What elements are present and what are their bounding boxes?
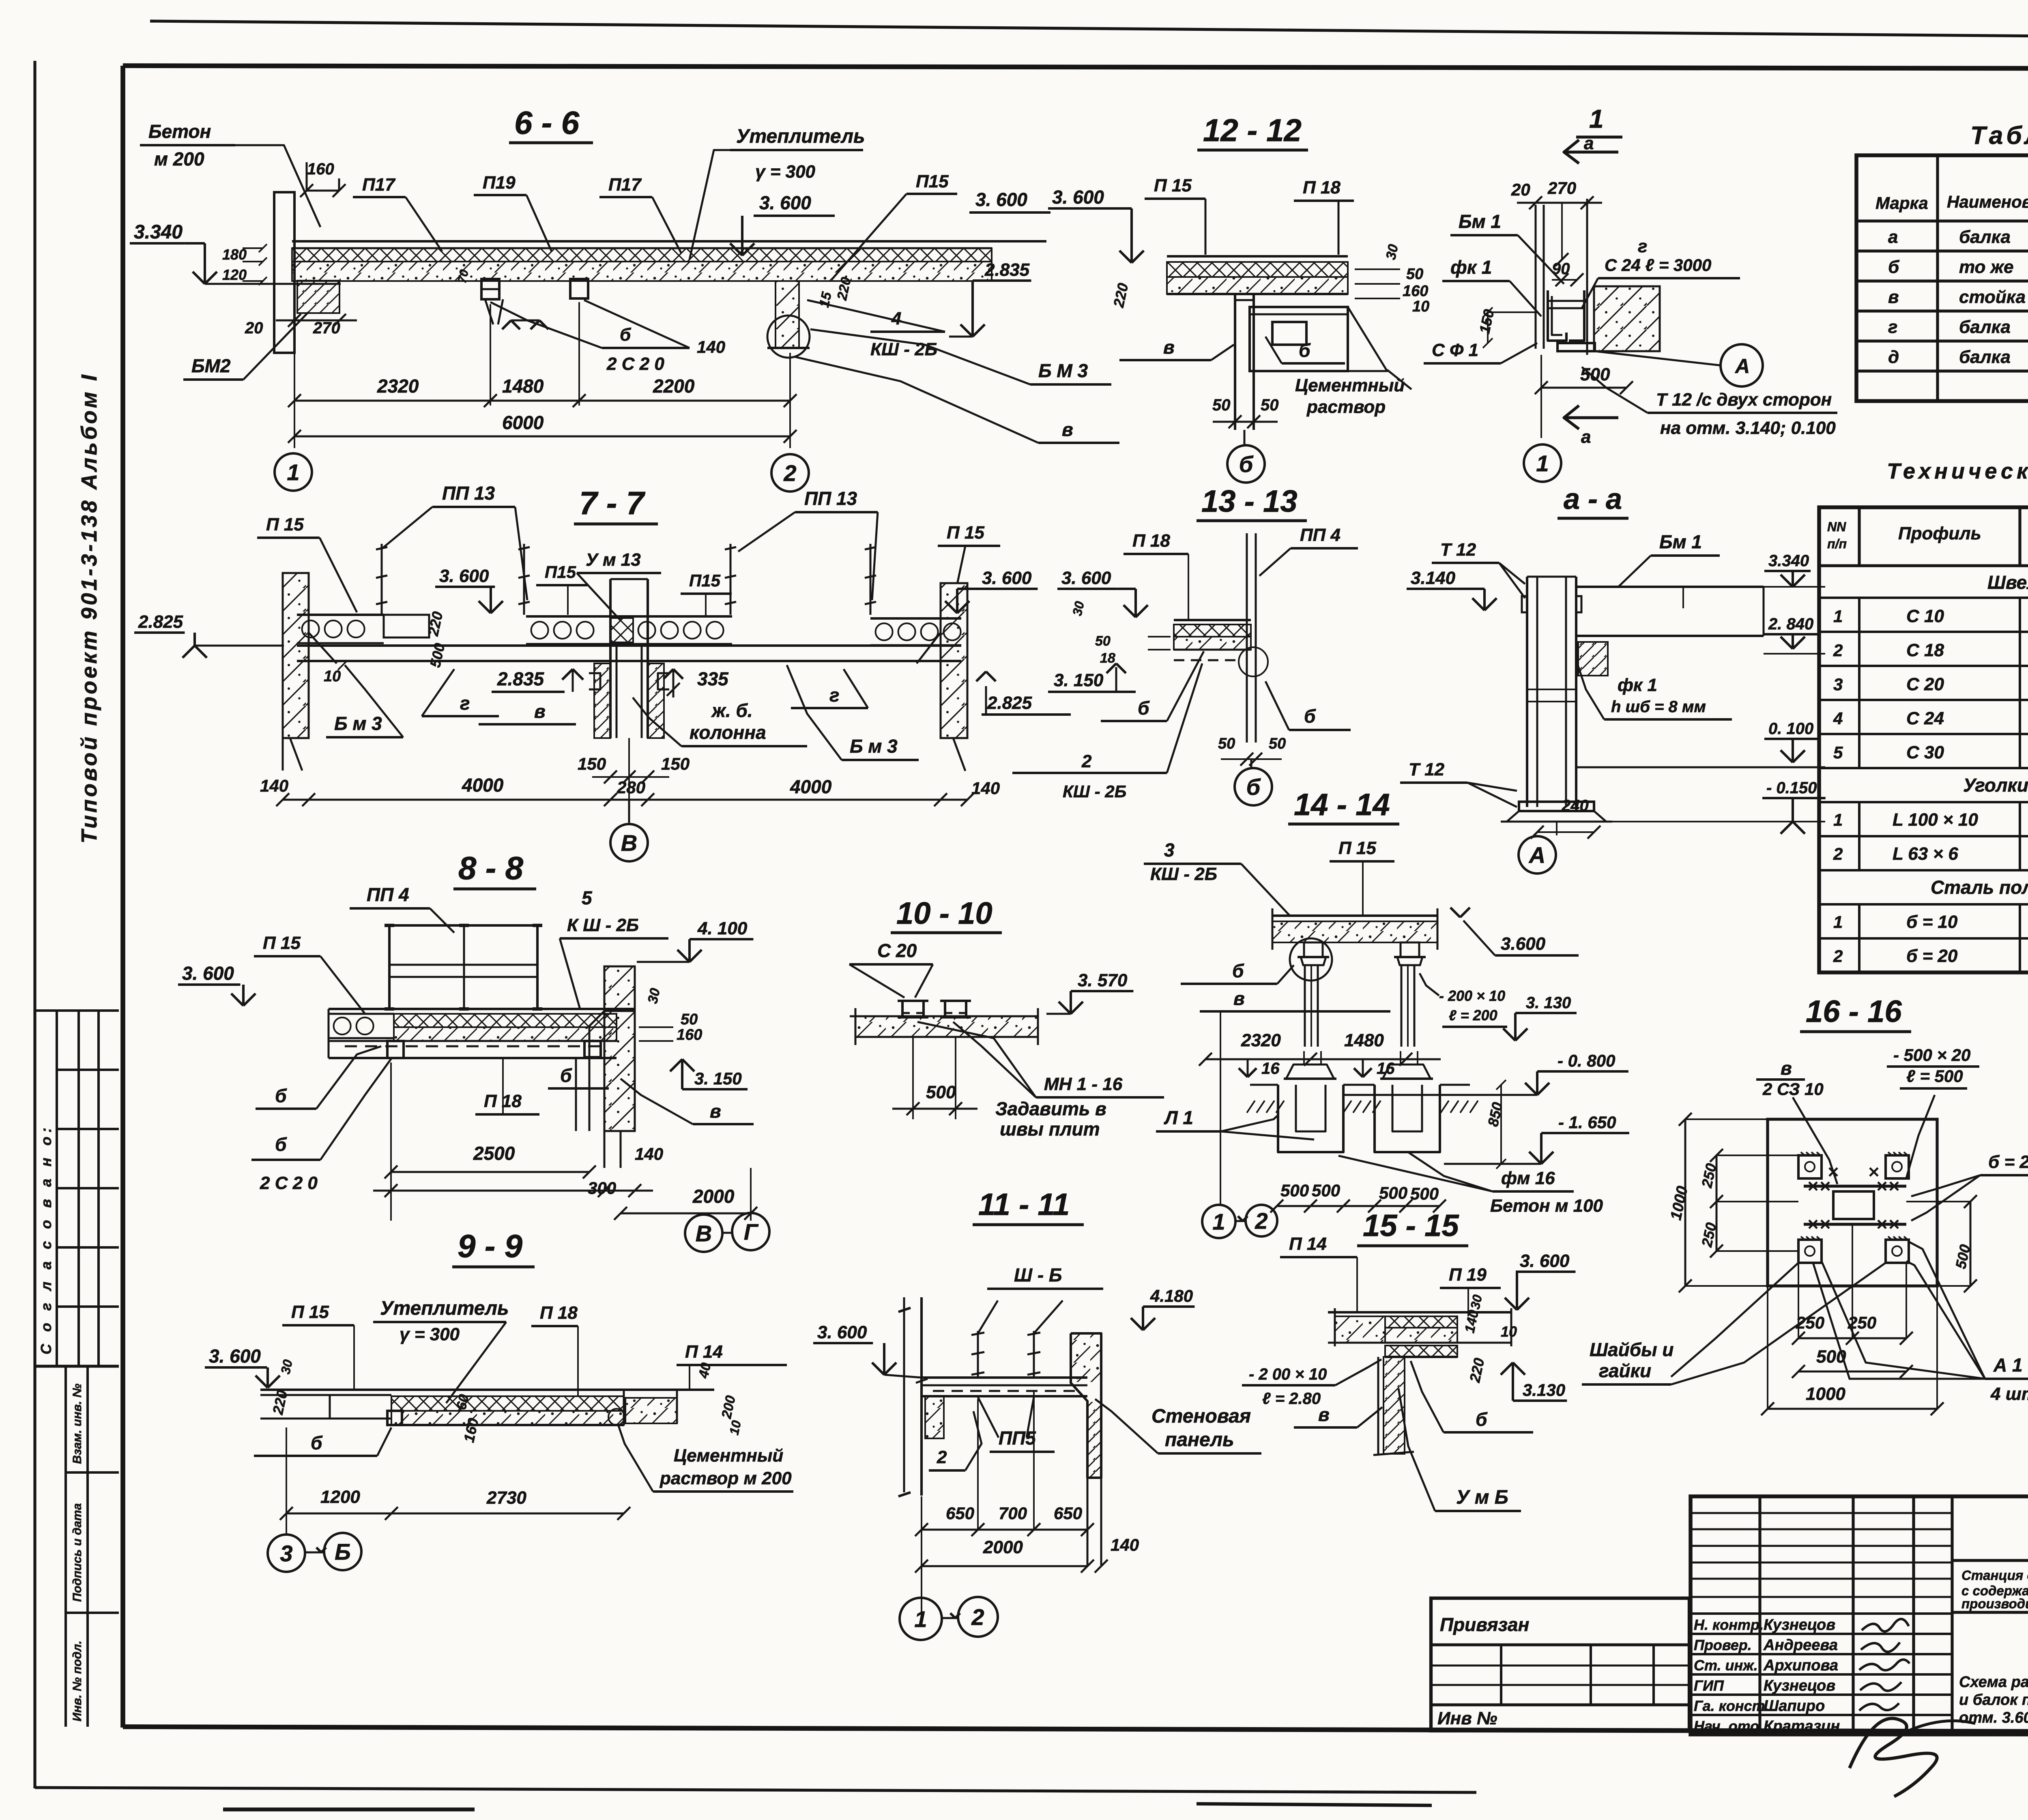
svg-text:150: 150 bbox=[578, 754, 606, 773]
6-6 slab insulation band bbox=[292, 248, 992, 262]
svg-text:С о г л а с о в а н о:: С о г л а с о в а н о: bbox=[38, 1124, 54, 1354]
svg-text:1: 1 bbox=[1833, 810, 1843, 829]
svg-text:3. 130: 3. 130 bbox=[1526, 994, 1571, 1012]
svg-text:Архипова: Архипова bbox=[1763, 1657, 1838, 1674]
svg-text:2500: 2500 bbox=[473, 1143, 515, 1164]
svg-text:2. 840: 2. 840 bbox=[1768, 615, 1813, 633]
svg-text:30: 30 bbox=[645, 987, 663, 1005]
svg-text:Утеплитель: Утеплитель bbox=[380, 1298, 509, 1319]
svg-text:1: 1 bbox=[1833, 912, 1843, 931]
svg-text:П 18: П 18 bbox=[1303, 178, 1341, 197]
svg-text:10: 10 bbox=[1412, 298, 1429, 315]
svg-text:в: в bbox=[1163, 337, 1175, 358]
svg-text:40: 40 bbox=[696, 1361, 714, 1380]
svg-text:и балок перекрытия на: и балок перекрытия на bbox=[1959, 1691, 2028, 1708]
svg-text:8 - 8: 8 - 8 bbox=[458, 850, 524, 886]
a-a base bbox=[1519, 802, 1594, 811]
7-7 left wall bbox=[283, 573, 309, 738]
9-9 slab left thin bbox=[260, 1389, 714, 1391]
svg-text:раствор: раствор bbox=[1306, 397, 1386, 417]
svg-text:240: 240 bbox=[1561, 797, 1589, 815]
svg-text:Наименован.: Наименован. bbox=[1947, 192, 2028, 211]
svg-text:ℓ = 500: ℓ = 500 bbox=[1906, 1067, 1963, 1086]
svg-text:50: 50 bbox=[1406, 266, 1423, 283]
svg-text:50: 50 bbox=[1212, 396, 1231, 414]
svg-text:на отм. 3.140; 0.100: на отм. 3.140; 0.100 bbox=[1660, 418, 1836, 438]
svg-text:4.180: 4.180 bbox=[1150, 1286, 1193, 1305]
svg-text:Т 12: Т 12 bbox=[1409, 760, 1445, 779]
svg-text:П 15: П 15 bbox=[1338, 838, 1376, 858]
svg-text:3. 600: 3. 600 bbox=[759, 192, 811, 213]
svg-text:Сталь полосовая 103-76: Сталь полосовая 103-76 bbox=[1931, 877, 2028, 898]
svg-text:4000: 4000 bbox=[462, 775, 504, 796]
svg-text:3.340: 3.340 bbox=[1768, 552, 1809, 570]
svg-text:А 1: А 1 bbox=[1993, 1354, 2023, 1376]
svg-text:270: 270 bbox=[313, 319, 340, 337]
svg-text:3.140: 3.140 bbox=[1411, 568, 1456, 588]
svg-text:У м 13: У м 13 bbox=[586, 550, 641, 570]
svg-text:15 - 15: 15 - 15 bbox=[1363, 1208, 1459, 1243]
svg-text:С 30: С 30 bbox=[1906, 743, 1944, 762]
svg-text:50: 50 bbox=[1269, 735, 1286, 752]
svg-text:Подпись и дата: Подпись и дата bbox=[71, 1503, 84, 1602]
svg-text:700: 700 bbox=[999, 1504, 1027, 1523]
svg-text:3: 3 bbox=[280, 1541, 292, 1566]
svg-text:Л 1: Л 1 bbox=[1164, 1107, 1193, 1128]
svg-text:L 63 × 6: L 63 × 6 bbox=[1893, 844, 1958, 864]
13-13 bubble bbox=[1250, 759, 1252, 767]
title block signatures squiggles bbox=[1862, 1619, 1909, 1631]
drawing frame bbox=[123, 66, 2028, 69]
svg-text:2.835: 2.835 bbox=[497, 668, 545, 689]
svg-text:в: в bbox=[1888, 287, 1899, 307]
svg-text:Инв №: Инв № bbox=[1437, 1708, 1497, 1728]
svg-text:650: 650 bbox=[1054, 1504, 1082, 1523]
svg-text:3. 600: 3. 600 bbox=[439, 566, 489, 586]
9-9 bubbles bbox=[268, 1535, 305, 1572]
svg-text:70: 70 bbox=[455, 268, 471, 285]
svg-text:П 14: П 14 bbox=[685, 1342, 723, 1362]
svg-text:335: 335 bbox=[697, 668, 729, 689]
svg-text:h шб = 8 мм: h шб = 8 мм bbox=[1611, 698, 1706, 716]
svg-text:Т 12 /с двух сторон: Т 12 /с двух сторон bbox=[1656, 390, 1832, 410]
svg-text:20: 20 bbox=[1511, 180, 1530, 199]
svg-text:2 С 2 0: 2 С 2 0 bbox=[260, 1173, 318, 1193]
svg-text:3. 600: 3. 600 bbox=[975, 189, 1027, 210]
svg-text:160: 160 bbox=[1403, 283, 1428, 300]
svg-text:9 - 9: 9 - 9 bbox=[458, 1228, 523, 1264]
svg-text:3. 600: 3. 600 bbox=[1052, 187, 1104, 208]
7-7 slab hollow-core right bbox=[870, 617, 961, 620]
svg-text:ПП 4: ПП 4 bbox=[1300, 525, 1341, 545]
svg-text:Стеновая: Стеновая bbox=[1151, 1406, 1251, 1427]
11-11 axis wall lines bbox=[903, 1297, 905, 1492]
svg-text:У м Б: У м Б bbox=[1456, 1487, 1508, 1508]
svg-text:П 15: П 15 bbox=[1154, 176, 1192, 195]
svg-text:раствор м 200: раствор м 200 bbox=[660, 1468, 792, 1488]
svg-text:ПП5: ПП5 bbox=[999, 1427, 1036, 1449]
svg-text:10: 10 bbox=[726, 1419, 744, 1436]
14-14 post caps at footing bbox=[1286, 1065, 1334, 1079]
svg-text:П15: П15 bbox=[545, 562, 576, 582]
title block signature columns bbox=[1758, 1496, 1761, 1734]
6-6 grid bubbles bbox=[275, 453, 312, 491]
svg-text:3. 150: 3. 150 bbox=[694, 1069, 742, 1088]
svg-text:б: б bbox=[1299, 340, 1311, 361]
14-14 bubbles bbox=[1202, 1205, 1235, 1238]
7-7 joint bars above slab bbox=[381, 544, 383, 615]
11-11 left block bbox=[925, 1396, 944, 1438]
svg-text:П 14: П 14 bbox=[1289, 1234, 1327, 1254]
svg-text:4 шт: 4 шт bbox=[1990, 1384, 2028, 1404]
svg-text:γ = 300: γ = 300 bbox=[755, 162, 816, 182]
svg-text:швы плит: швы плит bbox=[1000, 1118, 1100, 1140]
svg-text:3. 600: 3. 600 bbox=[209, 1346, 261, 1367]
svg-text:балка: балка bbox=[1959, 227, 2011, 247]
svg-text:МН 1 - 16: МН 1 - 16 bbox=[1044, 1074, 1123, 1094]
svg-text:б: б bbox=[1304, 706, 1316, 727]
svg-text:производительностью 40 тыс.: производительностью 40 тыс. м³/сутки. bbox=[1961, 1596, 2028, 1611]
svg-text:Утеплитель: Утеплитель bbox=[736, 126, 865, 147]
14-14 weld marks 16 bbox=[1239, 1068, 1248, 1077]
svg-text:- 0. 800: - 0. 800 bbox=[1558, 1051, 1615, 1070]
svg-text:2: 2 bbox=[1081, 751, 1092, 771]
svg-text:П 15: П 15 bbox=[263, 933, 301, 953]
svg-text:160: 160 bbox=[307, 160, 334, 178]
svg-text:30: 30 bbox=[278, 1358, 295, 1375]
svg-text:650: 650 bbox=[946, 1504, 974, 1523]
svg-text:3: 3 bbox=[1833, 675, 1843, 694]
svg-text:в: в bbox=[1233, 988, 1245, 1009]
svg-text:Б м 3: Б м 3 bbox=[334, 713, 382, 734]
svg-text:б: б bbox=[1232, 960, 1244, 981]
title block upper small rows bbox=[1691, 1512, 1952, 1514]
svg-text:фм 16: фм 16 bbox=[1501, 1168, 1555, 1188]
svg-text:150: 150 bbox=[661, 754, 690, 773]
svg-text:2: 2 bbox=[1833, 641, 1843, 660]
svg-text:12 - 12: 12 - 12 bbox=[1203, 112, 1302, 148]
svg-text:2: 2 bbox=[783, 460, 796, 486]
svg-text:П 18: П 18 bbox=[540, 1303, 578, 1323]
svg-text:Типовой проект 901-3-138: Типовой проект 901-3-138 Альбом I bbox=[77, 372, 101, 843]
svg-text:Кузнецов: Кузнецов bbox=[1764, 1677, 1835, 1694]
svg-text:140: 140 bbox=[971, 779, 1000, 798]
svg-text:60: 60 bbox=[453, 1393, 472, 1411]
svg-text:б: б bbox=[1246, 774, 1261, 800]
14-14 bolts and posts bbox=[1290, 938, 1332, 981]
svg-text:Станция обезжелезнивания во: Станция обезжелезнивания воды подземных … bbox=[1961, 1568, 2028, 1583]
svg-text:3. 600: 3. 600 bbox=[982, 568, 1032, 588]
table: Таблица сечений grid bbox=[1856, 155, 2028, 401]
svg-text:2: 2 bbox=[937, 1447, 947, 1467]
svg-text:270: 270 bbox=[1547, 178, 1576, 197]
svg-text:С 20: С 20 bbox=[1906, 674, 1944, 694]
paper top edge line bbox=[150, 21, 2028, 39]
svg-text:2 СЗ 10: 2 СЗ 10 bbox=[1762, 1080, 1824, 1099]
svg-text:Ст. инж.: Ст. инж. bbox=[1694, 1657, 1758, 1674]
svg-text:П17: П17 bbox=[608, 175, 642, 195]
12-12 slab bbox=[1167, 255, 1348, 258]
svg-text:2000: 2000 bbox=[692, 1186, 735, 1207]
svg-text:б: б bbox=[311, 1432, 323, 1453]
svg-text:в: в bbox=[1062, 419, 1073, 440]
svg-text:500: 500 bbox=[926, 1082, 956, 1102]
7-7 slab hollow-core left bbox=[297, 614, 384, 616]
svg-text:П 15: П 15 bbox=[947, 523, 984, 543]
svg-text:Инв. № подл.: Инв. № подл. bbox=[71, 1641, 84, 1721]
svg-text:Кратазин: Кратазин bbox=[1764, 1718, 1840, 1735]
12-12 cement box bbox=[1250, 307, 1348, 371]
svg-text:2.835: 2.835 bbox=[984, 260, 1030, 280]
svg-text:балка: балка bbox=[1959, 317, 2011, 337]
a-a bubble A bbox=[1556, 822, 1558, 835]
svg-text:16: 16 bbox=[1261, 1060, 1280, 1077]
15-15 wall below bbox=[1384, 1357, 1405, 1454]
node 1 section arrow a (top) bbox=[1564, 150, 1618, 153]
svg-text:3. 600: 3. 600 bbox=[1061, 568, 1111, 588]
svg-text:А: А bbox=[1734, 355, 1750, 378]
svg-text:2: 2 bbox=[1833, 946, 1843, 966]
svg-text:50: 50 bbox=[1261, 396, 1279, 414]
svg-text:ℓ = 2.80: ℓ = 2.80 bbox=[1262, 1390, 1321, 1408]
svg-text:отм. 3.600. Сечения 6-6 ÷15-: отм. 3.600. Сечения 6-6 ÷15-15. bbox=[1959, 1709, 2028, 1726]
svg-text:11 - 11: 11 - 11 bbox=[978, 1187, 1070, 1222]
6-6 mid hanger clips bbox=[481, 279, 499, 299]
node 1 wall verticals bbox=[1535, 205, 1537, 349]
svg-text:1: 1 bbox=[914, 1606, 927, 1632]
svg-text:1480: 1480 bbox=[502, 376, 544, 397]
13-13 slab bbox=[1174, 619, 1251, 621]
spec table grid bbox=[1819, 507, 2028, 972]
svg-text:140: 140 bbox=[635, 1144, 663, 1163]
svg-text:КШ - 2Б: КШ - 2Б bbox=[1063, 782, 1126, 801]
svg-text:С Ф 1: С Ф 1 bbox=[1432, 340, 1478, 360]
a-a channel column bbox=[1526, 577, 1528, 807]
svg-text:ПП 13: ПП 13 bbox=[804, 488, 857, 509]
svg-text:К Ш - 2Б: К Ш - 2Б bbox=[567, 915, 639, 935]
svg-text:1200: 1200 bbox=[320, 1487, 360, 1507]
svg-text:500: 500 bbox=[1312, 1181, 1340, 1200]
svg-text:Марка: Марка bbox=[1875, 193, 1928, 212]
svg-text:500: 500 bbox=[1410, 1184, 1439, 1203]
node 1 base plate bbox=[1558, 343, 1595, 351]
svg-text:- 1. 650: - 1. 650 bbox=[1558, 1113, 1616, 1132]
svg-text:3. 150: 3. 150 bbox=[1054, 670, 1104, 690]
svg-text:Бетон: Бетон bbox=[148, 121, 211, 142]
svg-text:г: г bbox=[829, 685, 840, 706]
svg-text:Кузнецов: Кузнецов bbox=[1764, 1616, 1835, 1633]
svg-text:2: 2 bbox=[1255, 1208, 1267, 1234]
svg-text:Шайбы и: Шайбы и bbox=[1590, 1339, 1674, 1360]
svg-text:1480: 1480 bbox=[1344, 1030, 1384, 1050]
svg-text:30: 30 bbox=[1070, 600, 1087, 617]
svg-text:50: 50 bbox=[681, 1011, 698, 1028]
svg-text:С 20: С 20 bbox=[877, 940, 917, 961]
svg-text:Б м 3: Б м 3 bbox=[850, 736, 898, 757]
svg-text:Нач. ото: Нач. ото bbox=[1694, 1718, 1759, 1734]
svg-text:3.600: 3.600 bbox=[1501, 934, 1546, 954]
svg-text:Г: Г bbox=[744, 1219, 759, 1245]
svg-text:а - а: а - а bbox=[1564, 483, 1622, 515]
svg-text:Андреева: Андреева bbox=[1763, 1637, 1838, 1654]
svg-text:фк 1: фк 1 bbox=[1450, 257, 1492, 278]
svg-text:б: б bbox=[620, 325, 632, 345]
svg-text:3.130: 3.130 bbox=[1523, 1380, 1565, 1399]
svg-text:а: а bbox=[1888, 227, 1898, 247]
16-16 corner bolt plates bbox=[1798, 1155, 1822, 1178]
bottom outer paper line bbox=[35, 1788, 1476, 1792]
13-13 post bbox=[1246, 533, 1248, 743]
svg-text:3. 600: 3. 600 bbox=[1520, 1251, 1570, 1271]
15-15 slab bbox=[1328, 1311, 1511, 1313]
11-11 slab bbox=[922, 1376, 1087, 1379]
svg-text:П 15: П 15 bbox=[291, 1302, 329, 1322]
svg-text:1: 1 bbox=[1589, 104, 1604, 133]
svg-text:Цементный: Цементный bbox=[674, 1446, 783, 1466]
svg-text:П15: П15 bbox=[689, 571, 721, 590]
8-8 tank box bbox=[389, 925, 537, 1009]
svg-text:П19: П19 bbox=[483, 173, 516, 193]
6-6 slab: top screed lines bbox=[292, 240, 1046, 243]
svg-text:м 200: м 200 bbox=[154, 148, 204, 170]
svg-text:ГИП: ГИП bbox=[1694, 1677, 1724, 1694]
svg-text:Га. конст.: Га. конст. bbox=[1694, 1698, 1769, 1714]
svg-text:- 200 × 10: - 200 × 10 bbox=[1439, 987, 1505, 1004]
svg-text:В: В bbox=[621, 830, 637, 856]
left margin: lower stamp strips bbox=[64, 1366, 67, 1727]
svg-text:П15: П15 bbox=[916, 172, 949, 191]
svg-text:б = 20: б = 20 bbox=[1988, 1152, 2028, 1172]
svg-text:балка: балка bbox=[1959, 347, 2011, 367]
14-14 slab bbox=[1272, 914, 1437, 917]
8-8 slab bbox=[329, 1008, 635, 1010]
svg-text:д: д bbox=[1888, 347, 1899, 367]
7-7 bubble В bbox=[628, 800, 630, 822]
svg-text:ж. б.: ж. б. bbox=[711, 700, 753, 721]
14-14 ground hatch bbox=[1247, 1101, 1255, 1113]
svg-text:Привязан: Привязан bbox=[1440, 1614, 1529, 1635]
11-11 bubbles bbox=[900, 1598, 942, 1640]
svg-text:С 24 ℓ = 3000: С 24 ℓ = 3000 bbox=[1605, 255, 1711, 275]
svg-text:Н. контр.: Н. контр. bbox=[1694, 1616, 1764, 1633]
svg-text:16: 16 bbox=[1377, 1060, 1395, 1077]
svg-text:в: в bbox=[710, 1101, 721, 1122]
svg-text:П 15: П 15 bbox=[266, 515, 304, 534]
svg-text:50: 50 bbox=[1095, 633, 1111, 649]
svg-text:С 24: С 24 bbox=[1906, 708, 1944, 728]
svg-text:20: 20 bbox=[245, 319, 263, 337]
8-8 bubbles bbox=[750, 1213, 752, 1217]
svg-text:3: 3 bbox=[1164, 839, 1175, 861]
7-7 slab hollow-core middle bbox=[526, 615, 732, 618]
svg-text:140: 140 bbox=[260, 776, 288, 795]
6-6 left wall bbox=[274, 192, 294, 353]
svg-text:Бетон м 100: Бетон м 100 bbox=[1490, 1196, 1603, 1216]
12-12 column strip bbox=[1234, 294, 1236, 430]
svg-text:2320: 2320 bbox=[377, 376, 419, 397]
svg-text:140: 140 bbox=[697, 337, 725, 356]
svg-text:- 500 × 20: - 500 × 20 bbox=[1893, 1045, 1970, 1065]
svg-text:3.340: 3.340 bbox=[134, 221, 183, 243]
7-7 center column bbox=[609, 579, 612, 738]
svg-text:Взам. инв. №: Взам. инв. № bbox=[71, 1384, 84, 1464]
svg-text:10 - 10: 10 - 10 bbox=[896, 896, 993, 931]
svg-text:2000: 2000 bbox=[983, 1537, 1023, 1557]
a-a corbel bbox=[1578, 642, 1608, 676]
svg-text:3. 600: 3. 600 bbox=[182, 963, 234, 984]
svg-text:Уголки Равнобокие 8509: Уголки Равнобокие 8509-72 bbox=[1963, 775, 2028, 796]
svg-text:в: в bbox=[1781, 1058, 1792, 1079]
svg-text:10: 10 bbox=[1501, 1323, 1517, 1340]
svg-text:Профиль: Профиль bbox=[1898, 524, 1981, 543]
svg-text:п/п: п/п bbox=[1827, 537, 1847, 551]
svg-text:6 - 6: 6 - 6 bbox=[514, 105, 580, 141]
9-9 right wall stub bbox=[625, 1398, 677, 1423]
svg-text:гайки: гайки bbox=[1599, 1360, 1651, 1381]
svg-text:П 19: П 19 bbox=[1449, 1265, 1487, 1285]
svg-text:Схема расположения плит: Схема расположения плит bbox=[1959, 1674, 2028, 1691]
svg-text:- 2 00 × 10: - 2 00 × 10 bbox=[1249, 1365, 1327, 1383]
svg-text:б: б bbox=[1888, 257, 1900, 277]
svg-text:30: 30 bbox=[1467, 1293, 1485, 1310]
svg-text:1: 1 bbox=[1212, 1209, 1225, 1234]
svg-text:1: 1 bbox=[1833, 607, 1843, 626]
svg-text:1: 1 bbox=[1536, 451, 1549, 476]
svg-text:Т 12: Т 12 bbox=[1440, 540, 1476, 560]
svg-text:б: б bbox=[1138, 698, 1150, 719]
svg-text:500: 500 bbox=[1580, 365, 1610, 384]
svg-text:Б: Б bbox=[335, 1539, 351, 1565]
svg-text:ПП 4: ПП 4 bbox=[367, 884, 409, 905]
left outer border line bbox=[33, 61, 36, 1788]
svg-text:колонна: колонна bbox=[690, 722, 766, 743]
16-16 middle channel band bbox=[1804, 1185, 1906, 1187]
svg-text:Бм 1: Бм 1 bbox=[1659, 531, 1702, 552]
svg-text:Таблица сечений.: Таблица сечений. bbox=[1970, 122, 2028, 150]
11-11 posts bbox=[977, 1331, 979, 1378]
svg-text:3. 600: 3. 600 bbox=[817, 1322, 867, 1342]
svg-text:L 100 × 10: L 100 × 10 bbox=[1893, 810, 1978, 830]
svg-text:в: в bbox=[1318, 1404, 1330, 1425]
10-10 clips on top bbox=[901, 1001, 904, 1016]
svg-text:2320: 2320 bbox=[1241, 1030, 1281, 1050]
svg-text:Шапиро: Шапиро bbox=[1764, 1698, 1825, 1715]
svg-text:а: а bbox=[1584, 133, 1594, 153]
left margin: Согласовано grid bbox=[35, 1009, 119, 1012]
svg-text:280: 280 bbox=[617, 778, 645, 797]
6-6 right pier with circle mark bbox=[776, 281, 799, 348]
svg-text:5: 5 bbox=[1833, 743, 1843, 762]
10-10 slab bbox=[855, 1016, 1038, 1037]
svg-text:13 - 13: 13 - 13 bbox=[1201, 484, 1298, 519]
svg-text:14 - 14: 14 - 14 bbox=[1294, 788, 1390, 822]
14-14 footings bbox=[1278, 1085, 1343, 1152]
svg-text:Швеллеры ГОСТ 8240-72: Швеллеры ГОСТ 8240-72 bbox=[1987, 572, 2028, 593]
svg-text:Бм 1: Бм 1 bbox=[1459, 211, 1501, 232]
svg-text:1000: 1000 bbox=[1806, 1384, 1845, 1404]
svg-text:Провер.: Провер. bbox=[1694, 1637, 1752, 1653]
9-9 clips bbox=[387, 1411, 402, 1425]
12-12 bubble bbox=[1244, 430, 1246, 444]
svg-text:фк 1: фк 1 bbox=[1618, 675, 1657, 695]
svg-text:г: г bbox=[1638, 236, 1647, 256]
svg-text:500: 500 bbox=[1379, 1183, 1407, 1202]
svg-text:б: б bbox=[1476, 1409, 1488, 1430]
svg-text:1: 1 bbox=[287, 459, 299, 485]
svg-text:б = 10: б = 10 bbox=[1906, 912, 1958, 932]
svg-text:Ш - Б: Ш - Б bbox=[1014, 1264, 1062, 1286]
svg-text:б: б bbox=[275, 1134, 287, 1155]
